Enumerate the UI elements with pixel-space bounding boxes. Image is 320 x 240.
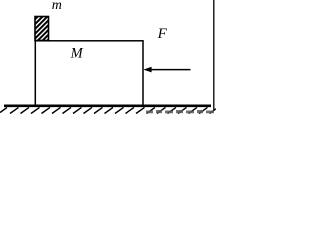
- block M: [35, 41, 143, 106]
- faint watermark smudges in ground hatching (bottom-right): [146, 110, 214, 113]
- ground line: [4, 105, 211, 108]
- force arrow F (pointing left at right face of M): [150, 69, 191, 71]
- wall line right edge: [213, 0, 215, 111]
- svg-text:F: F: [157, 26, 168, 42]
- svg-text:M: M: [70, 45, 84, 61]
- ground hatching: [0, 107, 216, 113]
- svg-text:m: m: [52, 0, 62, 13]
- block m (hatched): [35, 17, 49, 41]
